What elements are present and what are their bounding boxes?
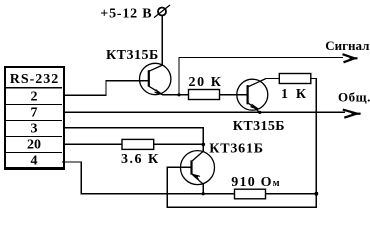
wire power to Q1 collector — [161, 16, 163, 66]
junction pin20 node — [202, 143, 206, 147]
wire pin7 common line — [63, 111, 345, 113]
Q1 body circle — [140, 63, 171, 94]
Q2 body circle — [237, 79, 268, 110]
svg-text:КТ315Б: КТ315Б — [233, 119, 285, 134]
Q1 base bar — [148, 70, 150, 86]
transistor Q2 КТ315Б — [237, 79, 268, 113]
resistor R1 20 К — [189, 90, 220, 100]
wire Q1 emitter to 20K — [163, 94, 189, 96]
wire emitter junction to 910 — [203, 193, 234, 195]
resistor R4 910 Ом — [235, 189, 266, 199]
svg-text:Сигнал: Сигнал — [325, 38, 369, 53]
resistor R3 3.6 К — [122, 139, 154, 149]
svg-text:7: 7 — [31, 106, 38, 121]
Q3 body circle — [181, 151, 215, 185]
svg-text:20 К: 20 К — [189, 75, 223, 90]
svg-text:3: 3 — [31, 122, 38, 137]
wire right node down and left (base loop) — [167, 167, 316, 207]
svg-text:RS-232: RS-232 — [10, 72, 60, 87]
common arrowhead — [343, 110, 361, 118]
svg-text:+5-12 В: +5-12 В — [100, 6, 152, 21]
Q2 collector lead — [248, 79, 266, 88]
junction right node — [315, 192, 318, 195]
svg-text:20: 20 — [27, 138, 41, 153]
svg-text:Общ.: Общ. — [338, 90, 370, 105]
svg-text:2: 2 — [31, 90, 38, 105]
Q3 collector lead — [192, 151, 204, 161]
wire pin4 down to emitter line — [62, 162, 203, 194]
svg-text:1 К: 1 К — [281, 87, 308, 102]
wire 20K to Q2 base — [220, 94, 248, 96]
wire pin20 to 3.6K — [63, 143, 122, 145]
connector J1 RS-232 box — [5, 67, 64, 169]
Q1 emitter arrow — [156, 91, 163, 95]
Q2 emitter lead — [248, 103, 260, 113]
Q1 emitter lead — [149, 86, 163, 95]
junction node A — [177, 93, 180, 96]
svg-text:КТ315Б: КТ315Б — [106, 48, 159, 63]
wire 3.6K to junction — [154, 143, 204, 145]
power terminal circle — [158, 8, 166, 16]
Q1 collector lead — [149, 65, 163, 71]
terminal slash — [154, 5, 170, 18]
wire pin2 to Q1 base — [63, 81, 149, 95]
transistor Q1 КТ315Б — [140, 63, 171, 95]
resistor R2 1 К — [279, 74, 311, 84]
wire 1K right end down to bottom junction — [311, 79, 317, 194]
wire Q2 collector to 1K — [266, 78, 280, 80]
wire 910 to right junction — [266, 193, 317, 195]
junction Q3 emitter — [202, 192, 205, 195]
transistor Q3 КТ361Б — [181, 151, 215, 185]
Q3 emitter lead — [192, 174, 204, 184]
signal arrowhead — [343, 54, 358, 62]
Q2 base bar — [247, 85, 249, 104]
svg-text:3.6 К: 3.6 К — [121, 152, 160, 167]
Q3 base bar — [190, 160, 192, 174]
wire Q3 emitter down — [202, 184, 204, 194]
wire node A up to signal line — [179, 58, 343, 95]
junction Q2 emitter on common line — [258, 111, 261, 114]
svg-text:910 Ом: 910 Ом — [231, 175, 279, 190]
wire pin3 to КТ361Б collector — [63, 128, 203, 152]
svg-text:КТ361Б: КТ361Б — [209, 142, 264, 157]
svg-text:4: 4 — [31, 154, 38, 169]
Q2 emitter arrow — [252, 105, 259, 109]
Q3 emitter arrow (PNP, points to base) — [192, 174, 199, 178]
